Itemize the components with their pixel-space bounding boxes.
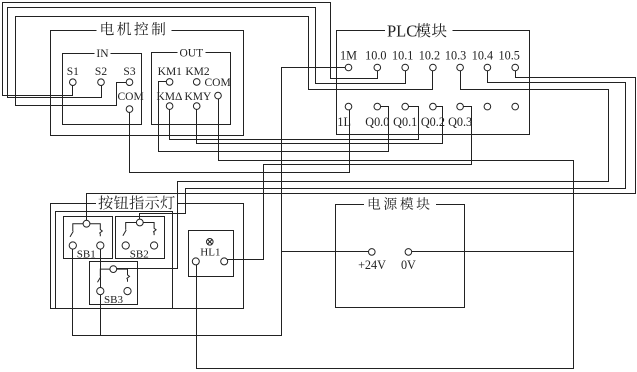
svg-text:OUT: OUT bbox=[179, 47, 203, 59]
wire: OUT COM terminal to HL1 left contact (via right and bottom detour) bbox=[197, 99, 574, 369]
terminal S3 bbox=[126, 79, 133, 86]
terminal 10.5 bbox=[512, 64, 519, 71]
svg-text:S1: S1 bbox=[67, 66, 79, 78]
terminal 10.1 bbox=[402, 64, 409, 71]
label HL1 bbox=[200, 246, 220, 258]
label 10.1 (PLC input) bbox=[392, 48, 413, 62]
wire: S1 to PLC input 10.0 (wraps around top-left) bbox=[3, 3, 378, 96]
terminal Q0.2 bbox=[430, 103, 437, 110]
label Q0.0 (PLC output) bbox=[365, 115, 389, 129]
wire: 0V to HL1 left contact wire bbox=[412, 251, 574, 253]
wire: SB3 left contact to 1M bus bbox=[100, 295, 102, 336]
label SB3 bbox=[104, 294, 123, 306]
label Q0.3 (PLC output) bbox=[448, 115, 472, 129]
pushbutton SB1 box bbox=[64, 217, 113, 259]
svg-text:COM: COM bbox=[205, 77, 231, 89]
label 10.4 (PLC input) bbox=[472, 48, 493, 62]
label KM-delta bbox=[157, 91, 183, 103]
terminal 10.2 bbox=[430, 64, 437, 71]
terminal Q0.1 bbox=[402, 103, 409, 110]
svg-text:SB3: SB3 bbox=[104, 294, 123, 306]
wire: SB2 top to PLC input 10.4 (wraps around right side) bbox=[140, 71, 626, 220]
wire: PLC output Q0.3 to HL1 right contact bbox=[228, 107, 472, 260]
label 1M (PLC input) bbox=[340, 48, 357, 62]
label COM (OUT side) bbox=[205, 77, 231, 89]
indicator lamp HL1 box bbox=[189, 231, 234, 277]
wire: S3 to PLC input 10.2 (wraps around top-left) bbox=[16, 17, 433, 106]
title: 电机控制 bbox=[101, 22, 165, 36]
SB2 left contact bbox=[122, 242, 129, 249]
HL1 left contact bbox=[192, 258, 199, 265]
svg-text:KM1: KM1 bbox=[158, 66, 183, 78]
wire: PLC 1L to motor IN COM terminal bbox=[130, 110, 350, 173]
svg-text:HL1: HL1 bbox=[200, 246, 220, 258]
wire: SB3 top to PLC input 10.3 (wraps around right side) bbox=[117, 71, 609, 269]
label 10.0 (PLC input) bbox=[365, 48, 386, 62]
svg-text:10.3: 10.3 bbox=[445, 48, 466, 62]
terminal KMY bbox=[193, 103, 200, 110]
svg-text:1L: 1L bbox=[337, 115, 351, 129]
svg-text:COM: COM bbox=[118, 91, 144, 103]
title: OUT bbox=[179, 47, 203, 59]
SB1 switch levers bbox=[70, 224, 102, 237]
SB1 left contact bbox=[69, 242, 76, 249]
label KM2 bbox=[185, 66, 210, 78]
svg-text:SB1: SB1 bbox=[77, 248, 96, 260]
svg-text:Q0.3: Q0.3 bbox=[448, 115, 472, 129]
title: 按钮指示灯 bbox=[99, 195, 175, 209]
terminal S1 bbox=[70, 79, 77, 86]
SB2 right contact bbox=[151, 242, 158, 249]
label +24V bbox=[358, 258, 386, 272]
terminal 10.0 bbox=[374, 64, 381, 71]
SB2 switch levers bbox=[123, 223, 156, 236]
terminal unused PLC output bbox=[512, 103, 519, 110]
SB3 switch levers bbox=[98, 269, 130, 282]
label COM (IN side) bbox=[118, 91, 144, 103]
box: IN terminal group bbox=[63, 54, 142, 125]
terminal S2 bbox=[98, 79, 105, 86]
lamp symbol (circle with X) bbox=[207, 239, 214, 246]
label S1 bbox=[67, 66, 79, 78]
svg-text:Q0.0: Q0.0 bbox=[365, 115, 389, 129]
terminal +24V bbox=[369, 249, 376, 256]
module box: power supply 电源模块 bbox=[336, 205, 465, 308]
wire: KM1 to PLC output Q0.0 bbox=[159, 82, 389, 152]
terminal Q0.3 bbox=[457, 103, 464, 110]
svg-text:10.5: 10.5 bbox=[499, 48, 520, 62]
label SB2 bbox=[130, 248, 149, 260]
SB3 right contact bbox=[124, 288, 131, 295]
title: PLC模块 bbox=[387, 21, 447, 40]
svg-text:1M: 1M bbox=[340, 48, 357, 62]
wire: +24V to 1M bus bbox=[282, 251, 369, 253]
svg-text:Q0.2: Q0.2 bbox=[421, 115, 445, 129]
terminal 1L bbox=[345, 103, 352, 110]
SB3 left contact bbox=[97, 288, 104, 295]
terminal KM2 bbox=[193, 79, 200, 86]
svg-text:PLC: PLC bbox=[387, 21, 417, 40]
label Q0.2 (PLC output) bbox=[421, 115, 445, 129]
svg-text:10.1: 10.1 bbox=[392, 48, 413, 62]
terminal KM1 bbox=[166, 79, 173, 86]
label S3 bbox=[123, 66, 135, 78]
terminal 1M bbox=[345, 64, 352, 71]
label S2 bbox=[95, 66, 107, 78]
module box: motor control 电机控制 bbox=[51, 31, 244, 136]
svg-text:+24V: +24V bbox=[358, 258, 386, 272]
label 10.3 (PLC input) bbox=[445, 48, 466, 62]
svg-text:10.0: 10.0 bbox=[365, 48, 386, 62]
title: IN bbox=[96, 48, 109, 60]
label SB1 bbox=[77, 248, 96, 260]
terminal COM (OUT side) bbox=[215, 92, 222, 99]
SB1 top terminal bbox=[83, 220, 90, 227]
wire: KM-delta to PLC output Q0.1 bbox=[170, 107, 419, 140]
pushbutton SB2 box bbox=[116, 217, 165, 259]
terminal KM-delta bbox=[166, 103, 173, 110]
label 10.2 (PLC input) bbox=[419, 48, 440, 62]
svg-text:S2: S2 bbox=[95, 66, 107, 78]
svg-text:KMY: KMY bbox=[185, 91, 213, 103]
terminal Q0.0 bbox=[374, 103, 381, 110]
wire: SB1 right contact chained to SB3 left contact bbox=[100, 250, 102, 288]
svg-text:Q0.1: Q0.1 bbox=[393, 115, 417, 129]
SB1 right contact bbox=[97, 242, 104, 249]
label Q0.1 (PLC output) bbox=[393, 115, 417, 129]
label 1L (PLC output) bbox=[337, 115, 351, 129]
svg-text:KMΔ: KMΔ bbox=[157, 91, 183, 103]
terminal 10.3 bbox=[457, 64, 464, 71]
wire: SB1 top to PLC input 10.5 (wraps around right side) bbox=[87, 71, 636, 221]
box: OUT terminal group bbox=[152, 53, 231, 125]
svg-text:IN: IN bbox=[96, 48, 109, 60]
label KM1 bbox=[158, 66, 183, 78]
svg-text:SB2: SB2 bbox=[130, 248, 149, 260]
svg-text:0V: 0V bbox=[401, 258, 416, 272]
svg-text:S3: S3 bbox=[123, 66, 135, 78]
label KMY bbox=[185, 91, 213, 103]
SB2 top terminal bbox=[136, 219, 143, 226]
label 0V bbox=[401, 258, 416, 272]
pushbutton SB3 box bbox=[90, 262, 138, 305]
svg-text:10.2: 10.2 bbox=[419, 48, 440, 62]
wire: KMY to PLC output Q0.2 bbox=[197, 107, 443, 144]
terminal COM (IN side) bbox=[126, 106, 133, 113]
terminal 0V bbox=[405, 249, 412, 256]
module box: button/indicator 按钮指示灯 bbox=[51, 204, 244, 309]
label 10.5 (PLC input) bbox=[499, 48, 520, 62]
terminal 10.4 bbox=[484, 64, 491, 71]
wire: S2 to PLC input 10.1 (wraps around top-left) bbox=[8, 8, 406, 98]
inner mounting box around SB1/SB2/SB3 bbox=[56, 212, 173, 309]
wire: PLC 1M common bus down to SB1 left contact bbox=[73, 68, 346, 336]
terminal unused PLC output bbox=[484, 103, 491, 110]
HL1 right contact bbox=[221, 258, 228, 265]
module box: PLC module PLC模块 bbox=[337, 31, 530, 135]
svg-text:10.4: 10.4 bbox=[472, 48, 493, 62]
title: 电源模块 bbox=[369, 197, 430, 210]
SB3 top terminal bbox=[110, 266, 117, 273]
